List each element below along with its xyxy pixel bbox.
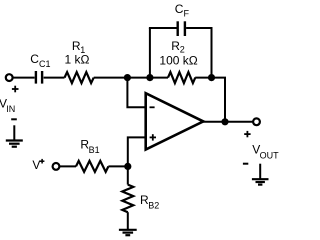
wire R_B1 to node D [108, 165, 127, 167]
input terminal (open circle) [6, 74, 13, 81]
wire C_F top left [149, 27, 177, 29]
capacitor C_F [178, 21, 185, 36]
wire node C to output corner [212, 78, 226, 122]
svg-text:C: C [30, 52, 39, 66]
resistor R2 [168, 72, 195, 83]
V_IN plus sign [12, 86, 19, 93]
node C (feedback right junction) [208, 74, 215, 81]
svg-text:B2: B2 [148, 201, 159, 211]
svg-text:OUT: OUT [260, 151, 280, 161]
op-amp non-inverting pin marker (plus) [150, 134, 156, 140]
wire C_F loop left riser [149, 28, 151, 78]
svg-text:1 kΩ: 1 kΩ [65, 52, 90, 66]
wire R2 to node C [195, 77, 211, 79]
wire non-inverting input to node D [128, 137, 146, 166]
resistor R_B2 [122, 185, 133, 213]
wire output node to output terminal [225, 121, 253, 123]
wire node B to R2 [150, 77, 168, 79]
svg-text:C: C [175, 2, 184, 16]
svg-text:V: V [32, 158, 40, 172]
wire R_B2 to ground [127, 212, 129, 230]
wire node A to node B [127, 77, 149, 79]
resistor R1 [65, 72, 94, 83]
svg-text:F: F [184, 9, 190, 19]
svg-text:IN: IN [6, 104, 15, 114]
wire C_F loop right riser [211, 28, 213, 78]
V+ terminal (open circle) [53, 163, 60, 170]
ground below V_IN [6, 125, 23, 146]
op-amp inverting pin marker (minus) [150, 106, 155, 108]
resistor R_B1 [76, 161, 108, 172]
node B (feedback left junction) [146, 74, 153, 81]
op-amp U1 [146, 93, 204, 149]
svg-text:C1: C1 [39, 59, 51, 69]
V_OUT plus sign [244, 131, 250, 137]
svg-text:100 kΩ: 100 kΩ [159, 54, 197, 68]
wire C_C1 to R1 [44, 77, 65, 79]
capacitor C_C1 [36, 71, 42, 84]
wire C_F top right [186, 27, 212, 29]
V+ superscript plus [40, 159, 45, 164]
ground below V_OUT [252, 164, 269, 185]
wire node D down to R_B2 [127, 166, 129, 184]
output terminal (open circle) [253, 118, 260, 125]
V_IN minus sign [11, 118, 17, 120]
V_OUT minus sign [243, 163, 248, 165]
node D (bias junction) [124, 163, 131, 170]
svg-text:B1: B1 [89, 145, 100, 155]
wire R1 to node A [94, 77, 128, 79]
wire V+ terminal to R_B1 [60, 165, 76, 167]
ground below R_B2 [119, 230, 137, 235]
output node junction [221, 118, 228, 125]
wire input terminal to C_C1 [13, 77, 35, 79]
wire node A down to inverting input [127, 78, 145, 108]
wire op-amp output to output node [203, 121, 226, 123]
node A (inverting input junction) [124, 74, 131, 81]
